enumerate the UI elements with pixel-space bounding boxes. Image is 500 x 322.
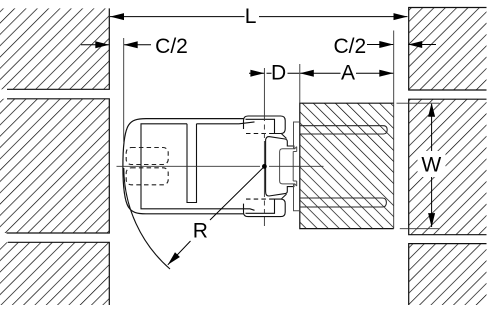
svg-text:R: R bbox=[193, 219, 208, 242]
swing radius arc bbox=[124, 168, 170, 269]
svg-text:C/2: C/2 bbox=[155, 35, 188, 58]
svg-text:W: W bbox=[421, 154, 441, 177]
hidden detail lower (dashed) bbox=[126, 168, 168, 185]
latch lever outer body bbox=[123, 119, 244, 214]
wall section top-left (hatched) bbox=[0, 8, 109, 89]
pivot dot bbox=[262, 164, 267, 169]
cam pawl bbox=[266, 137, 294, 196]
keeper plate on panel bbox=[294, 122, 300, 211]
dimension C/2 right bbox=[367, 31, 436, 229]
svg-text:D: D bbox=[271, 61, 286, 84]
dimension A bbox=[300, 64, 394, 103]
wall section middle-right (hatched) bbox=[409, 99, 487, 235]
mounting panel center (hatched) bbox=[300, 103, 394, 228]
svg-text:C/2: C/2 bbox=[333, 35, 366, 58]
wall section bottom-right (hatched) bbox=[409, 244, 487, 305]
claw neck upper bbox=[282, 134, 287, 139]
dimension W bbox=[397, 103, 446, 229]
svg-text:L: L bbox=[245, 5, 257, 28]
claw upper bbox=[244, 116, 286, 134]
dimension C/2 left bbox=[81, 38, 151, 142]
hidden detail upper (dashed) bbox=[126, 148, 168, 165]
mounting slot lower bbox=[300, 198, 387, 207]
wall section bottom-left (hatched) bbox=[0, 242, 109, 305]
svg-text:A: A bbox=[341, 61, 355, 84]
lever T-slot bbox=[187, 124, 197, 203]
dimension D bbox=[249, 70, 299, 77]
dimension L line bbox=[110, 13, 408, 20]
latch lever inner outline bbox=[141, 124, 255, 211]
claw lower bbox=[244, 199, 286, 217]
vertical centerline / D extension bbox=[263, 68, 265, 226]
wall section top-right (hatched) bbox=[409, 8, 487, 91]
radius leader R bbox=[168, 166, 265, 264]
claw neck lower bbox=[282, 194, 287, 199]
horizontal centerline bbox=[117, 165, 324, 167]
wall section middle-left (hatched) bbox=[0, 99, 109, 233]
mounting slot upper bbox=[300, 126, 387, 134]
keeper striker bracket bbox=[280, 147, 297, 186]
